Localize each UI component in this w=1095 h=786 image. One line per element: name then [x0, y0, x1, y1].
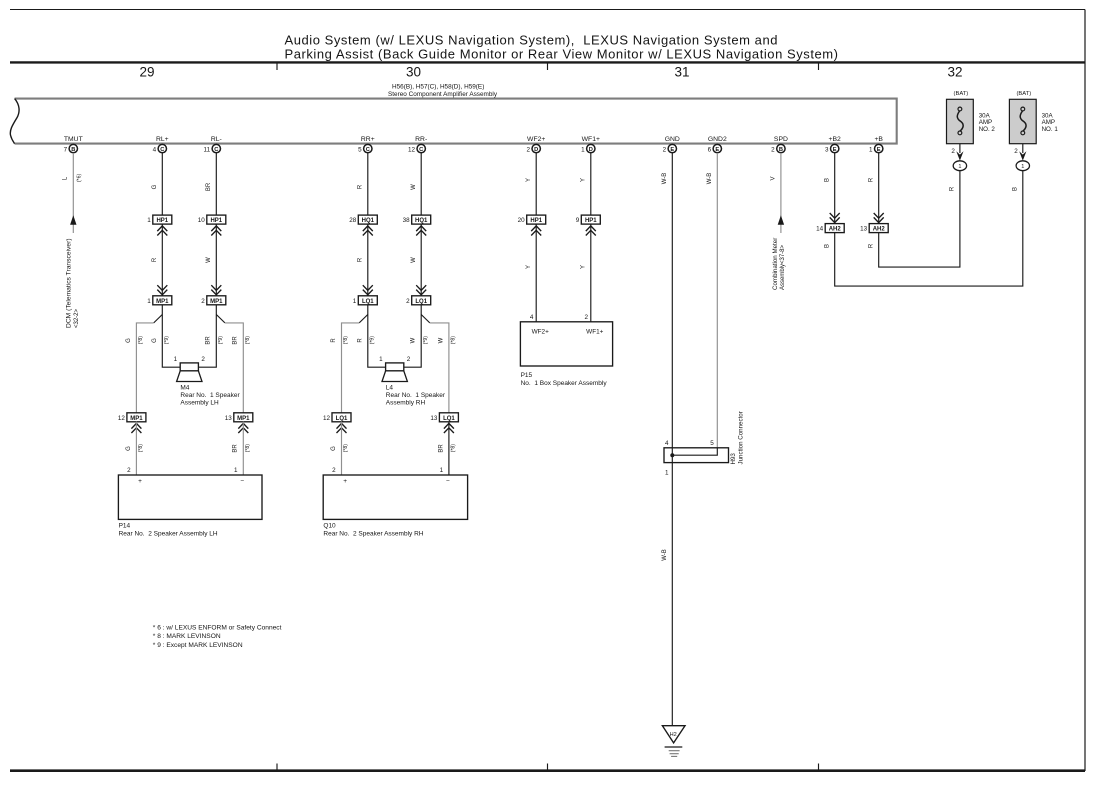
svg-text:14: 14	[816, 226, 824, 233]
svg-text:Y: Y	[526, 178, 532, 182]
connector chevrons above MP1	[157, 285, 167, 295]
svg-text:(*6): (*6)	[76, 174, 82, 183]
junction connector H93 label	[730, 411, 744, 464]
svg-text:W: W	[206, 257, 212, 263]
svg-text:TMUT: TMUT	[64, 136, 83, 143]
svg-text:G: G	[152, 184, 158, 189]
svg-text:G: G	[126, 338, 132, 343]
amplifier pin 12C RR-	[408, 136, 427, 154]
wire GND W-B upper segment	[662, 153, 672, 448]
svg-text:1: 1	[174, 356, 178, 363]
svg-text:R: R	[358, 338, 364, 343]
svg-text:RR+: RR+	[361, 136, 375, 143]
wire label L	[63, 176, 69, 180]
svg-text:(BAT): (BAT)	[1016, 91, 1031, 97]
svg-text:MP1: MP1	[210, 299, 223, 305]
wire branch right outer (gray) to 13 LQ1	[430, 323, 449, 413]
svg-text:GND2: GND2	[708, 136, 727, 143]
wire fork diagonal right to Q10 branch	[421, 315, 430, 323]
connector 1 MP1	[147, 296, 172, 305]
svg-text:Rear No. 1 Speaker: Rear No. 1 Speaker	[386, 392, 446, 399]
svg-text:Stereo Component Amplifier Ass: Stereo Component Amplifier Assembly	[388, 91, 498, 98]
speaker L4	[379, 356, 411, 381]
svg-text:HP1: HP1	[530, 218, 542, 224]
wire G to P14 pin 2	[126, 422, 144, 475]
svg-text:P15: P15	[521, 372, 533, 379]
amplifier pin 3E +B2	[825, 136, 841, 154]
svg-text:9: 9	[576, 217, 580, 224]
wire WF2+ to box speaker pin 4	[526, 224, 536, 322]
svg-text:+B: +B	[874, 136, 883, 143]
svg-text:NO. 1: NO. 1	[1042, 126, 1059, 133]
svg-text:(*8): (*8)	[138, 336, 144, 345]
svg-text:Q10: Q10	[323, 522, 336, 529]
wire RRL to speaker L4 pin 1	[368, 305, 386, 367]
svg-text:1: 1	[234, 467, 238, 474]
wire branch right outer (gray) to 13 MP1	[225, 323, 243, 413]
amplifier pin 1E +B	[869, 136, 883, 154]
wire RRL middle segment color R	[358, 224, 368, 296]
connector 2 MP1	[201, 296, 226, 305]
svg-text:W-B: W-B	[662, 173, 668, 185]
amplifier pin 4C RL+	[153, 136, 169, 154]
svg-text:12: 12	[118, 415, 126, 422]
svg-text:GND: GND	[665, 136, 680, 143]
connector 13 MP1	[225, 413, 253, 422]
svg-text:G: G	[331, 446, 337, 451]
svg-text:RR-: RR-	[415, 136, 427, 143]
frame top border line	[10, 9, 1085, 11]
fuse 30A AMP NO. 2	[947, 91, 996, 144]
svg-text:W-B: W-B	[662, 549, 668, 561]
svg-text:Y: Y	[581, 265, 587, 269]
svg-text:2: 2	[951, 148, 955, 155]
svg-text:2: 2	[127, 467, 131, 474]
svg-text:1: 1	[665, 470, 669, 477]
svg-text:(*8): (*8)	[451, 336, 457, 345]
svg-text:E: E	[670, 147, 674, 153]
connector chevrons above MP1	[211, 285, 221, 295]
svg-text:1: 1	[581, 146, 585, 153]
svg-text:HQ1: HQ1	[415, 218, 428, 224]
svg-text:Combination Meter: Combination Meter	[772, 238, 779, 290]
wire G to Q10 pin 2	[331, 422, 349, 475]
footnote legend	[153, 624, 282, 649]
connector 28 HQ1	[349, 215, 377, 224]
wire fork diagonal left to P14 branch	[154, 315, 163, 323]
svg-text:H93: H93	[730, 453, 737, 465]
svg-text:1: 1	[147, 217, 151, 224]
svg-text:Y: Y	[581, 178, 587, 182]
svg-text:<32-2>: <32-2>	[74, 308, 80, 328]
wire BR to Q10 pin 1	[438, 422, 456, 475]
junction connector H93 box	[664, 440, 729, 477]
node DCM (Telematics Transceiver) destination label	[66, 238, 80, 328]
svg-text:Rear No. 1 Speaker: Rear No. 1 Speaker	[180, 392, 240, 399]
svg-text:13: 13	[430, 415, 438, 422]
svg-text:HP1: HP1	[156, 218, 168, 224]
svg-text:WF2+: WF2+	[527, 136, 545, 143]
svg-text:Assembly<37-8>: Assembly<37-8>	[780, 244, 786, 290]
svg-text:11: 11	[204, 146, 211, 153]
connector chevrons below 12 MP1	[131, 423, 141, 433]
svg-text:R: R	[152, 257, 158, 262]
svg-text:(*9): (*9)	[369, 336, 375, 345]
svg-text:(*8): (*8)	[138, 444, 144, 453]
node Combination Meter Assembly destination label	[772, 238, 786, 290]
wire R from 13 AH2 to fuse AMP NO.2	[868, 171, 960, 268]
svg-text:2: 2	[332, 467, 336, 474]
svg-text:2: 2	[526, 146, 530, 153]
svg-text:3: 3	[825, 146, 829, 153]
svg-text:1: 1	[147, 298, 151, 305]
connector 2 LQ1	[406, 296, 431, 305]
svg-text:RL-: RL-	[211, 136, 222, 143]
svg-text:WF2+: WF2+	[532, 328, 549, 335]
wire GND W-B lower segment to ground	[662, 463, 672, 726]
svg-text:* 6 : w/ LEXUS ENFORM or Safet: * 6 : w/ LEXUS ENFORM or Safety Connect	[153, 624, 282, 631]
speaker M4	[174, 356, 206, 381]
svg-text:L4: L4	[386, 384, 394, 391]
svg-text:BR: BR	[233, 444, 239, 453]
connector 1 HP1	[147, 215, 172, 224]
wire annotation (*6)	[76, 174, 82, 183]
frame right border line	[1084, 10, 1086, 772]
svg-text:R: R	[869, 177, 875, 182]
connector chevrons below HQ1	[416, 226, 426, 236]
wire RLL top segment color G	[152, 153, 162, 215]
svg-text:Rear No. 2 Speaker Assembly L: Rear No. 2 Speaker Assembly LH	[119, 530, 218, 537]
svg-text:W-B: W-B	[707, 173, 713, 185]
svg-text:−: −	[240, 478, 244, 485]
svg-text:1: 1	[440, 467, 444, 474]
svg-text:MP1: MP1	[130, 416, 143, 422]
wire RLR to speaker M4 pin 2	[198, 305, 216, 367]
svg-text:38: 38	[403, 217, 411, 224]
svg-text:Assembly RH: Assembly RH	[386, 399, 426, 406]
connector chevrons below HP1	[211, 226, 221, 236]
ground H2 symbol	[662, 726, 685, 743]
svg-text:D: D	[589, 147, 593, 153]
wire RLL to speaker M4 pin 1	[162, 305, 180, 367]
junction node dot in H93	[670, 453, 674, 457]
connector chevrons below HP1	[586, 226, 596, 236]
section number 31	[674, 64, 689, 79]
svg-text:W: W	[411, 184, 417, 190]
wire SPD V to combination meter (gray)	[771, 153, 781, 233]
svg-text:W: W	[411, 337, 417, 343]
svg-text:6: 6	[708, 146, 712, 153]
svg-text:5: 5	[358, 146, 362, 153]
arrow to combination meter	[778, 215, 784, 225]
svg-text:E: E	[833, 147, 837, 153]
svg-text:2: 2	[584, 314, 588, 321]
svg-text:(*9): (*9)	[164, 336, 170, 345]
svg-text:12: 12	[408, 146, 416, 153]
svg-text:−: −	[446, 478, 450, 485]
svg-text:BR: BR	[206, 336, 212, 345]
svg-text:AH2: AH2	[873, 227, 886, 233]
svg-text:AH2: AH2	[829, 227, 842, 233]
connector 20 HP1	[518, 215, 546, 224]
wire R from amplifier to 13 AH2	[869, 153, 879, 224]
svg-text:+: +	[138, 478, 142, 485]
svg-text:R: R	[358, 257, 364, 262]
svg-text:13: 13	[225, 415, 233, 422]
wire RRR middle segment color W	[411, 224, 421, 296]
svg-text:Rear No. 2 Speaker Assembly R: Rear No. 2 Speaker Assembly RH	[323, 530, 423, 537]
svg-text:B: B	[1013, 187, 1019, 191]
wire RRL top segment color R	[358, 153, 368, 215]
svg-text:Y: Y	[526, 265, 532, 269]
connector 14 AH2	[816, 224, 844, 233]
svg-text:G: G	[126, 446, 132, 451]
svg-text:+B2: +B2	[829, 136, 842, 143]
fuse NO. 1 pin 2 and arrow	[1014, 144, 1026, 161]
svg-text:WF1+: WF1+	[582, 136, 600, 143]
svg-text:1: 1	[379, 356, 383, 363]
connector chevrons below 13 MP1	[238, 423, 248, 433]
svg-text:2: 2	[407, 356, 411, 363]
svg-text:No. 1 Box Speaker Assembly: No. 1 Box Speaker Assembly	[521, 380, 608, 387]
svg-text:1: 1	[869, 146, 873, 153]
diagram title text	[285, 32, 839, 61]
svg-text:B: B	[779, 147, 783, 153]
section number 29	[139, 64, 154, 79]
wire RRR top segment color W	[411, 153, 421, 215]
connector 1 LQ1	[353, 296, 378, 305]
amplifier pin 2D WF2+	[526, 136, 545, 154]
svg-text:R: R	[358, 184, 364, 189]
svg-text:(*8): (*8)	[343, 336, 349, 345]
connector 38 HQ1	[403, 215, 431, 224]
svg-text:Junction Connector: Junction Connector	[737, 411, 744, 464]
svg-text:B: B	[71, 147, 75, 153]
svg-text:2: 2	[201, 298, 205, 305]
svg-text:C: C	[160, 147, 164, 153]
svg-text:LQ1: LQ1	[362, 299, 374, 305]
svg-text:Parking Assist (Back Guide Mon: Parking Assist (Back Guide Monitor or Re…	[285, 46, 839, 61]
svg-text:2: 2	[201, 356, 205, 363]
svg-text:32: 32	[947, 64, 962, 79]
svg-text:Assembly LH: Assembly LH	[180, 399, 219, 406]
wire WF1+ to box speaker pin 2	[581, 224, 591, 322]
svg-text:E: E	[877, 147, 881, 153]
wire WF1+ top segment color Y	[581, 153, 591, 215]
svg-text:4: 4	[153, 146, 157, 153]
svg-text:(*8): (*8)	[451, 444, 457, 453]
svg-text:31: 31	[674, 64, 689, 79]
svg-text:SPD: SPD	[774, 136, 788, 143]
section number 32	[947, 64, 962, 79]
svg-text:HQ1: HQ1	[362, 218, 375, 224]
wire GND2 W-B segment (gray)	[707, 153, 717, 448]
svg-text:2: 2	[406, 298, 410, 305]
svg-text:B: B	[825, 178, 831, 182]
svg-text:BR: BR	[233, 336, 239, 345]
svg-text:C: C	[366, 147, 370, 153]
svg-text:HP1: HP1	[210, 218, 222, 224]
connector oval 1 below fuse NO. 2	[953, 161, 966, 171]
connector 10 HP1	[198, 215, 226, 224]
svg-text:W: W	[411, 257, 417, 263]
speaker L4 label	[386, 384, 446, 406]
wire color labels above speaker M4	[126, 336, 251, 345]
svg-text:(*8): (*8)	[245, 444, 251, 453]
speaker assembly P15 box	[520, 322, 612, 366]
svg-text:LQ1: LQ1	[336, 416, 348, 422]
svg-text:HP1: HP1	[585, 218, 597, 224]
wire WF2+ top segment color Y	[526, 153, 536, 215]
wire color labels above speaker L4	[331, 336, 456, 345]
svg-text:P14: P14	[119, 522, 131, 529]
connector chevrons above LQ1	[363, 285, 373, 295]
svg-text:MP1: MP1	[156, 299, 169, 305]
svg-text:E: E	[715, 147, 719, 153]
svg-text:13: 13	[860, 226, 868, 233]
connector chevrons below 13 LQ1	[444, 423, 454, 433]
wire RLL middle segment color R	[152, 224, 162, 296]
wire RLR middle segment color W	[206, 224, 216, 296]
svg-text:B: B	[824, 244, 830, 248]
svg-text:20: 20	[518, 217, 526, 224]
svg-text:D: D	[534, 147, 538, 153]
amplifier pin 6E GND2	[708, 136, 727, 154]
svg-text:C: C	[214, 147, 218, 153]
section number 30	[406, 64, 421, 79]
svg-text:R: R	[950, 186, 956, 191]
svg-text:2: 2	[663, 146, 667, 153]
svg-text:R: R	[868, 243, 874, 248]
amplifier pin 7B TMUT	[64, 136, 83, 154]
svg-text:C: C	[419, 147, 423, 153]
wire TMUT L to DCM	[72, 153, 74, 233]
svg-text:12: 12	[323, 415, 331, 422]
svg-text:7: 7	[64, 146, 68, 153]
svg-text:(*9): (*9)	[423, 336, 429, 345]
svg-text:(*8): (*8)	[245, 336, 251, 345]
connector 13 AH2	[860, 224, 888, 233]
svg-text:28: 28	[349, 217, 357, 224]
svg-text:* 8 : MARK LEVINSON: * 8 : MARK LEVINSON	[153, 633, 221, 640]
svg-text:BR: BR	[206, 182, 212, 191]
connector chevrons below HP1	[531, 226, 541, 236]
svg-text:(BAT): (BAT)	[954, 91, 969, 97]
amplifier U1 Stereo Component Amplifier Assembly box outline	[10, 99, 896, 144]
section tick marks on header line	[277, 64, 819, 71]
svg-text:LQ1: LQ1	[415, 299, 427, 305]
section tick marks on bottom line	[277, 764, 819, 771]
svg-text:DCM (Telematics Transceiver): DCM (Telematics Transceiver)	[66, 238, 73, 328]
connector chevrons above LQ1	[416, 285, 426, 295]
svg-text:* 9 : Except MARK LEVINSON: * 9 : Except MARK LEVINSON	[153, 642, 243, 649]
connector oval 1 below fuse NO. 1	[1016, 161, 1029, 171]
svg-text:1: 1	[353, 298, 357, 305]
svg-text:RL+: RL+	[156, 136, 169, 143]
svg-text:4: 4	[530, 314, 534, 321]
wire RRR to speaker L4 pin 2	[404, 305, 421, 367]
speaker assembly P14 label	[119, 522, 218, 537]
svg-text:5: 5	[710, 440, 714, 447]
svg-text:MP1: MP1	[237, 416, 250, 422]
wire branch left outer (gray) to 12 MP1	[136, 323, 153, 413]
speaker assembly Q10 label	[323, 522, 423, 537]
svg-text:1: 1	[958, 164, 961, 170]
connector chevrons above 13 AH2	[874, 213, 884, 223]
speaker assembly P15 label	[521, 372, 608, 387]
wire branch left outer (gray) to 12 LQ1	[342, 323, 360, 413]
wire fork diagonal left to Q10 branch	[359, 315, 368, 323]
svg-text:NO. 2: NO. 2	[979, 126, 996, 133]
wire B from amplifier to 14 AH2	[825, 153, 835, 224]
svg-text:2: 2	[771, 146, 775, 153]
svg-text:M4: M4	[180, 384, 189, 391]
svg-text:30: 30	[406, 64, 421, 79]
svg-text:2: 2	[1014, 148, 1018, 155]
speaker M4 label	[180, 384, 240, 406]
speaker assembly P14 box	[118, 467, 262, 520]
amplifier pin 5C RR+	[358, 136, 375, 154]
connector chevrons below 12 LQ1	[337, 423, 347, 433]
arrow to DCM	[70, 215, 76, 225]
svg-text:H56(B), H57(C), H58(D), H59(E): H56(B), H57(C), H58(D), H59(E)	[392, 84, 484, 91]
svg-text:W: W	[438, 337, 444, 343]
svg-text:LQ1: LQ1	[443, 416, 455, 422]
wire fork diagonal right to P14 branch	[216, 315, 225, 323]
frame bottom border line	[10, 769, 1085, 772]
svg-text:(*8): (*8)	[343, 444, 349, 453]
connector 9 HP1	[576, 215, 601, 224]
amplifier pin 1D WF1+	[581, 136, 600, 154]
svg-text:Audio System (w/ LEXUS Navigat: Audio System (w/ LEXUS Navigation System…	[285, 32, 779, 47]
amplifier pin 11C RL-	[204, 136, 222, 154]
connector 13 LQ1	[430, 413, 458, 422]
speaker assembly Q10 box	[323, 467, 467, 520]
section header separator line	[10, 61, 1085, 63]
svg-text:+: +	[343, 478, 347, 485]
svg-text:BR: BR	[438, 444, 444, 453]
ground hatch lines	[665, 747, 683, 756]
wire BR to P14 pin 1	[233, 422, 251, 475]
connector 12 MP1	[118, 413, 146, 422]
svg-text:V: V	[771, 176, 777, 180]
svg-text:4: 4	[665, 440, 669, 447]
wire inside junction connector H93	[672, 448, 717, 463]
fuse NO. 2 pin 2 and arrow	[951, 144, 963, 161]
svg-text:1: 1	[1021, 164, 1024, 170]
svg-text:G: G	[152, 338, 158, 343]
connector chevrons below HQ1	[363, 226, 373, 236]
svg-text:(*9): (*9)	[218, 336, 224, 345]
connector chevrons above 14 AH2	[830, 213, 840, 223]
amplifier U1 header label	[388, 84, 498, 99]
amplifier pin 2B SPD	[771, 136, 788, 154]
svg-text:10: 10	[198, 217, 206, 224]
svg-text:H2: H2	[670, 732, 677, 738]
connector 12 LQ1	[323, 413, 351, 422]
svg-text:29: 29	[139, 64, 154, 79]
fuse 30A AMP NO. 1	[1009, 91, 1058, 144]
connector chevrons below HP1	[157, 226, 167, 236]
amplifier pin 2E GND	[663, 136, 680, 154]
svg-text:R: R	[331, 338, 337, 343]
svg-text:WF1+: WF1+	[586, 328, 603, 335]
wire B from 14 AH2 to fuse AMP NO.1	[824, 171, 1022, 287]
wire RLR top segment color BR	[206, 153, 216, 215]
